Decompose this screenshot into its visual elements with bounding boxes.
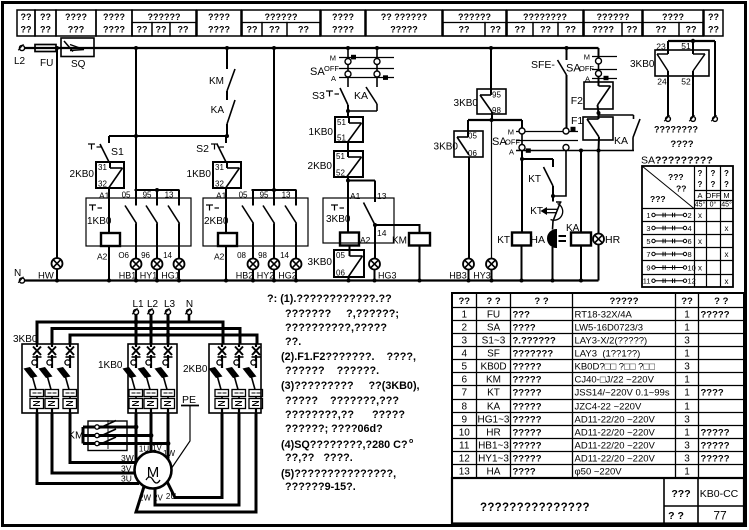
svg-text:5: 5 xyxy=(461,362,467,373)
relay box 3KB0 xyxy=(323,198,394,243)
svg-text:1: 1 xyxy=(684,323,690,334)
svg-text:????: ???? xyxy=(701,388,724,399)
svg-text:HB2: HB2 xyxy=(236,271,254,281)
svg-text:HA: HA xyxy=(530,234,545,246)
svg-text:??: ?? xyxy=(565,25,576,35)
pushbutton S2 xyxy=(196,136,226,162)
svg-text:95: 95 xyxy=(492,91,501,100)
svg-text:????: ???? xyxy=(65,12,87,22)
svg-text:??: ?? xyxy=(40,12,51,22)
svg-text:????: ???? xyxy=(332,12,354,22)
wire phase L3 distribution xyxy=(70,315,257,345)
svg-text:1: 1 xyxy=(684,467,690,478)
contact 2KB0 05-08 xyxy=(237,190,253,260)
svg-text:10: 10 xyxy=(688,263,696,272)
coil KA xyxy=(566,149,591,281)
wire top feeder L2 bus xyxy=(22,46,599,50)
svg-text:JSS14/~220V 0.1~99s: JSS14/~220V 0.1~99s xyxy=(575,388,670,399)
lamp HY1 xyxy=(140,258,163,281)
svg-text:???: ??? xyxy=(671,488,690,500)
pushbutton S3 xyxy=(312,88,348,105)
svg-text:??: ?? xyxy=(247,25,258,35)
svg-text:??: ?? xyxy=(40,25,51,35)
svg-text:05: 05 xyxy=(336,251,345,260)
terminal L1 power xyxy=(132,299,144,315)
aux NC contact 3KB0 05-06 xyxy=(308,246,364,281)
contact KA bypass (NO) xyxy=(599,115,641,151)
svg-text:2KB0: 2KB0 xyxy=(183,364,208,375)
svg-text:1: 1 xyxy=(684,388,690,399)
svg-text:12: 12 xyxy=(459,454,471,465)
svg-text:??????????,?????: ??????????,????? xyxy=(285,322,387,334)
svg-text:KT: KT xyxy=(487,388,500,399)
svg-text:??????? ?,??????;: ??????? ?,??????; xyxy=(285,308,399,320)
svg-text:1U: 1U xyxy=(139,445,149,454)
svg-text:??????; ????06d?: ??????; ????06d? xyxy=(285,423,383,435)
svg-text:x: x xyxy=(725,277,729,286)
svg-text:SQ: SQ xyxy=(71,59,86,70)
svg-text:?????: ????? xyxy=(513,388,542,399)
svg-text:?????: ????? xyxy=(513,362,542,373)
svg-text:??: ?? xyxy=(656,25,667,35)
svg-text:?: (1).????????????.??: ?: (1).????????????.?? xyxy=(267,293,392,305)
table bill of materials xyxy=(452,293,744,478)
svg-text:1: 1 xyxy=(684,428,690,439)
svg-text:9: 9 xyxy=(646,263,650,272)
wire contact header xyxy=(135,188,180,192)
svg-text:95: 95 xyxy=(260,191,269,200)
svg-text:8: 8 xyxy=(461,402,467,413)
svg-text:51: 51 xyxy=(337,118,346,127)
svg-text:S3: S3 xyxy=(312,90,325,102)
svg-text:???????????????: ??????????????? xyxy=(480,502,590,514)
svg-text:A: A xyxy=(697,191,702,200)
svg-text:KA: KA xyxy=(614,135,628,147)
svg-text:KA: KA xyxy=(354,90,368,102)
contact KM (NO) xyxy=(209,48,235,91)
svg-text:OFF: OFF xyxy=(324,64,339,73)
label motor terminals top xyxy=(139,444,176,459)
aux NC contact 2KB0 51-52 xyxy=(308,151,363,178)
svg-text:OFF: OFF xyxy=(505,138,520,147)
svg-text:8: 8 xyxy=(688,250,692,259)
contact KA (NO) xyxy=(211,91,235,136)
fuse FU xyxy=(35,45,56,70)
lamp HY3 xyxy=(473,120,497,281)
svg-text:7: 7 xyxy=(646,250,650,259)
svg-text:L1: L1 xyxy=(132,299,144,310)
wire contact header xyxy=(252,188,297,192)
svg-text:??: ?? xyxy=(708,25,719,35)
svg-text:KT: KT xyxy=(528,174,541,185)
svg-text:F2: F2 xyxy=(571,95,583,107)
svg-text:????: ???? xyxy=(332,25,354,35)
svg-text:06: 06 xyxy=(468,149,477,158)
label SA table title xyxy=(641,155,713,167)
wire dropper to group2 contacts xyxy=(273,48,275,190)
svg-text:3KB0: 3KB0 xyxy=(434,142,459,153)
aux NC contact 3KB0 05-06 right xyxy=(434,131,483,258)
svg-text:KB0D?□□ ?□□ ?□□: KB0D?□□ ?□□ ?□□ xyxy=(575,362,656,373)
svg-text:3: 3 xyxy=(684,415,690,426)
relay box 2KB0 xyxy=(203,188,308,246)
svg-text:??: ?? xyxy=(21,25,32,35)
svg-text:LAY3-X/2(?????): LAY3-X/2(?????) xyxy=(575,336,648,347)
svg-text:1: 1 xyxy=(684,375,690,386)
svg-text:14: 14 xyxy=(377,228,387,238)
svg-text:KT: KT xyxy=(530,206,543,217)
svg-text:SA: SA xyxy=(487,323,501,334)
svg-text:1V: 1V xyxy=(152,444,162,453)
label motor terminals bottom xyxy=(139,492,176,503)
title header row xyxy=(17,10,723,36)
terminal L3 power xyxy=(164,299,176,315)
wire to A1 and 13 xyxy=(346,177,387,202)
svg-text:??: ?? xyxy=(681,296,693,307)
svg-text:????: ???? xyxy=(662,12,684,22)
svg-text:KM: KM xyxy=(486,375,501,386)
svg-text:?: ? xyxy=(698,169,703,178)
svg-text:M: M xyxy=(330,54,336,63)
svg-text:1KB0: 1KB0 xyxy=(309,127,334,138)
svg-text:3KB0: 3KB0 xyxy=(454,98,479,109)
lamp HR xyxy=(593,151,621,281)
svg-text:HY1~3: HY1~3 xyxy=(478,454,509,465)
svg-text:45°: 45° xyxy=(695,201,706,209)
svg-text:?????: ????? xyxy=(513,428,542,439)
label PE xyxy=(172,394,199,468)
svg-text:AD11-22/20 ~220V: AD11-22/20 ~220V xyxy=(575,428,656,439)
thermal relay F2 xyxy=(571,82,613,115)
svg-text:L3: L3 xyxy=(164,299,176,310)
svg-text:??????9-15?.: ??????9-15?. xyxy=(285,481,356,493)
svg-text:??: ?? xyxy=(458,296,470,307)
svg-text:32: 32 xyxy=(98,180,107,189)
svg-text:KM: KM xyxy=(392,236,407,247)
svg-text:?: ? xyxy=(711,180,716,189)
contact 1KB0 13-14 xyxy=(163,190,179,260)
svg-text:32: 32 xyxy=(215,180,224,189)
cam switch SA upper xyxy=(310,48,394,87)
svg-text:24: 24 xyxy=(657,77,667,87)
svg-text:KB0D: KB0D xyxy=(480,362,506,373)
svg-text:M: M xyxy=(584,53,590,62)
svg-text:x: x xyxy=(725,224,729,233)
svg-text:LAY3 (1??1??): LAY3 (1??1??) xyxy=(575,349,641,360)
svg-text:????: ???? xyxy=(513,467,536,478)
svg-text:3KB0: 3KB0 xyxy=(13,334,38,345)
svg-text:FU: FU xyxy=(487,310,500,321)
svg-text:2KB0: 2KB0 xyxy=(308,161,333,172)
svg-text:3: 3 xyxy=(461,336,467,347)
contact KT (NO) xyxy=(528,159,555,198)
lamp HY2 xyxy=(257,258,280,281)
lamp HB2 xyxy=(236,258,259,281)
svg-text:???????: ??????? xyxy=(513,349,554,360)
svg-text:????: ???? xyxy=(103,25,125,35)
svg-text:95: 95 xyxy=(143,191,152,200)
svg-text:KA: KA xyxy=(566,223,580,234)
coil KM xyxy=(392,233,430,281)
svg-text:HY1: HY1 xyxy=(140,271,158,281)
circuit breaker 1KB0 power xyxy=(98,344,177,413)
svg-text:??: ?? xyxy=(515,25,526,35)
svg-text:M: M xyxy=(147,464,160,481)
wire branch bus y136 xyxy=(109,134,229,138)
svg-text:??: ?? xyxy=(490,25,501,35)
aux NC contact 2KB0 31-32 xyxy=(70,162,124,189)
svg-text:23: 23 xyxy=(656,42,666,52)
svg-text:05: 05 xyxy=(122,191,131,200)
svg-text:??,?? ????.: ??,?? ????. xyxy=(285,452,353,464)
svg-text:9: 9 xyxy=(461,415,467,426)
svg-text:A1: A1 xyxy=(350,191,361,201)
svg-text:??: ?? xyxy=(21,12,32,22)
svg-text:(5)???????????????,: (5)???????????????, xyxy=(281,468,396,480)
wire neutral N bus xyxy=(22,279,599,283)
svg-text:x: x xyxy=(698,237,702,246)
svg-text:(3)????????? ??(3KB0),: (3)????????? ??(3KB0), xyxy=(281,380,420,392)
svg-text:M: M xyxy=(508,128,514,137)
svg-text:????: ???? xyxy=(103,12,125,22)
svg-text:SF: SF xyxy=(487,349,500,360)
svg-text:51: 51 xyxy=(681,41,691,51)
svg-text:13: 13 xyxy=(165,191,174,200)
svg-text:52: 52 xyxy=(336,169,345,178)
svg-text:?????: ????? xyxy=(701,428,730,439)
cam switch SA upper-right xyxy=(566,48,617,84)
svg-text:45°: 45° xyxy=(721,201,732,209)
svg-text:51: 51 xyxy=(336,152,345,161)
svg-text:OFF: OFF xyxy=(706,191,721,200)
wire phase L2 distribution xyxy=(52,315,240,345)
svg-text:? ?: ? ? xyxy=(714,296,728,307)
svg-text:31: 31 xyxy=(98,163,107,172)
svg-text:98: 98 xyxy=(492,106,501,115)
svg-text:3: 3 xyxy=(684,336,690,347)
pushbutton S1 xyxy=(88,136,124,162)
svg-text:????? ???????,???: ????? ???????,??? xyxy=(285,395,399,407)
svg-text:?????: ????? xyxy=(701,310,730,321)
limit switch SQ xyxy=(61,38,94,70)
svg-text:M: M xyxy=(723,191,729,200)
svg-text:6: 6 xyxy=(688,237,692,246)
svg-text:??????: ?????? xyxy=(458,12,491,22)
svg-text:96: 96 xyxy=(141,251,150,260)
svg-text:KA: KA xyxy=(211,105,225,116)
svg-text:KM: KM xyxy=(209,76,224,87)
svg-text:?????: ????? xyxy=(513,402,542,413)
svg-text:??.: ??. xyxy=(285,336,301,348)
svg-text:S1~3: S1~3 xyxy=(482,336,506,347)
svg-text:OFF: OFF xyxy=(579,64,594,73)
svg-text:A: A xyxy=(331,74,336,83)
lamp HW xyxy=(38,258,63,282)
svg-text:4: 4 xyxy=(688,224,692,233)
svg-text:JZC4-22 ~220V: JZC4-22 ~220V xyxy=(575,402,642,413)
svg-text:2V: 2V xyxy=(153,494,163,503)
svg-text:1KB0: 1KB0 xyxy=(98,360,123,371)
svg-text:HG3: HG3 xyxy=(378,271,397,281)
lamp HG3 xyxy=(369,225,397,281)
svg-text:(4)SQ????????,?280 C?: (4)SQ????????,?280 C? xyxy=(281,439,408,451)
svg-text:S1: S1 xyxy=(111,146,124,158)
svg-text:1KB0: 1KB0 xyxy=(187,169,212,180)
svg-text:1: 1 xyxy=(461,310,467,321)
svg-text:???: ??? xyxy=(650,194,666,204)
contact 2KB0 13-14 xyxy=(280,190,296,260)
svg-text:??: ?? xyxy=(686,25,697,35)
relay box 1KB0 xyxy=(86,188,191,246)
svg-text:3KB0: 3KB0 xyxy=(308,257,333,268)
svg-text:12: 12 xyxy=(688,277,696,286)
svg-text:14: 14 xyxy=(280,251,289,260)
svg-text:05: 05 xyxy=(239,191,248,200)
table SA positions xyxy=(642,166,733,287)
wire 14 to KM coil xyxy=(375,225,420,233)
svg-text:????: ???? xyxy=(513,323,536,334)
horn HA xyxy=(530,230,566,281)
svg-text:????: ???? xyxy=(592,25,614,35)
svg-text:??????: ?????? xyxy=(148,12,181,22)
svg-text:98: 98 xyxy=(258,251,267,260)
svg-text:HB1~3: HB1~3 xyxy=(478,441,509,452)
title block xyxy=(452,478,744,524)
svg-text:2U: 2U xyxy=(166,492,176,501)
svg-text:A2: A2 xyxy=(214,252,225,262)
svg-text:13: 13 xyxy=(459,467,471,478)
svg-text:????: ???? xyxy=(670,139,693,150)
svg-text:HY2: HY2 xyxy=(257,271,275,281)
svg-text:3: 3 xyxy=(684,441,690,452)
svg-text:???: ??? xyxy=(68,25,85,35)
label wiring note xyxy=(654,125,698,151)
aux NC contact 1KB0 31-32 xyxy=(187,162,241,189)
svg-text:HA: HA xyxy=(487,467,501,478)
svg-text:77: 77 xyxy=(713,509,727,523)
svg-text:1: 1 xyxy=(646,211,650,220)
svg-text:2: 2 xyxy=(688,211,692,220)
svg-text:3: 3 xyxy=(684,362,690,373)
svg-text:HR: HR xyxy=(605,234,621,246)
wire HW branch xyxy=(56,48,58,258)
svg-text:1: 1 xyxy=(684,349,690,360)
contact 3KB0 13-14 xyxy=(364,203,387,239)
svg-text:3: 3 xyxy=(646,224,650,233)
cam switch SA lower xyxy=(492,127,634,157)
svg-text:A: A xyxy=(509,148,514,157)
svg-text:??????: ?????? xyxy=(597,12,630,22)
svg-text:?: ? xyxy=(711,169,716,178)
aux contacts 3KB0 23-51 box xyxy=(630,39,715,87)
svg-text:2W: 2W xyxy=(139,494,151,503)
svg-text:?? ??????: ?? ?????? xyxy=(381,12,427,22)
svg-text:7: 7 xyxy=(461,388,467,399)
svg-text:??????: ?????? xyxy=(265,12,298,22)
svg-text:0°: 0° xyxy=(710,201,717,209)
svg-text:HB3: HB3 xyxy=(449,271,467,281)
coil 1KB0 xyxy=(97,198,120,281)
svg-text:AD11-22/20 ~220V: AD11-22/20 ~220V xyxy=(575,415,656,426)
svg-text:??: ?? xyxy=(708,12,719,22)
svg-text:??: ?? xyxy=(298,25,309,35)
svg-text:2KB0: 2KB0 xyxy=(70,169,95,180)
contact KA parallel (NO) xyxy=(354,87,377,111)
svg-text:?????: ????? xyxy=(513,375,542,386)
contact 1KB0 05-O6 xyxy=(118,190,136,260)
svg-text:????: ???? xyxy=(208,12,230,22)
svg-text:(2).F1.F2???????. ????,: (2).F1.F2???????. ????, xyxy=(281,351,416,363)
svg-text:???: ??? xyxy=(513,310,531,321)
svg-text:13: 13 xyxy=(282,191,291,200)
circuit breaker 3KB0 power xyxy=(13,334,78,413)
svg-text:3W: 3W xyxy=(121,453,134,463)
svg-text:KA: KA xyxy=(487,402,501,413)
svg-text:KB0-CC: KB0-CC xyxy=(700,488,739,500)
wire SA-A branch KT xyxy=(520,134,553,233)
svg-text:? ?: ? ? xyxy=(486,296,500,307)
wire 1KB0 outputs to motor xyxy=(136,413,168,462)
wire terminals of SA illustration xyxy=(664,41,717,121)
svg-text:HB1: HB1 xyxy=(119,271,137,281)
terminal N power xyxy=(185,299,193,322)
svg-text:3KB0: 3KB0 xyxy=(630,59,655,70)
svg-text:3V: 3V xyxy=(121,464,132,474)
svg-text:2: 2 xyxy=(461,323,467,334)
svg-text:06: 06 xyxy=(336,269,345,278)
lamp HB3 xyxy=(449,258,474,281)
svg-text:N: N xyxy=(186,299,193,310)
svg-text:?????: ????? xyxy=(609,296,638,307)
svg-text:x: x xyxy=(698,264,702,273)
svg-text:o: o xyxy=(409,438,413,445)
lamp HG2 xyxy=(278,258,301,281)
wire 3KB0 outputs 3W 3V 3U xyxy=(37,413,139,484)
svg-text:??: ?? xyxy=(627,25,638,35)
contact KT delayed xyxy=(530,196,563,230)
coil 3KB0 xyxy=(340,198,371,246)
svg-text:52: 52 xyxy=(681,77,691,87)
svg-text:CJ40-□J/22 ~220V: CJ40-□J/22 ~220V xyxy=(575,375,655,386)
terminal L2 power xyxy=(147,299,159,315)
wire motor returns 2U 2V 2W to 2KB0 xyxy=(136,413,256,512)
svg-text:?: ? xyxy=(698,180,703,189)
svg-text:RT18-32X/4A: RT18-32X/4A xyxy=(575,310,633,321)
svg-text:????????,?? ?????: ????????,?? ????? xyxy=(285,409,405,421)
terminal L2 xyxy=(14,44,26,67)
svg-text:?????: ????? xyxy=(701,454,730,465)
svg-text:??: ?? xyxy=(269,25,280,35)
svg-text:x: x xyxy=(725,250,729,259)
svg-text:A2: A2 xyxy=(97,252,108,262)
circuit breaker 2KB0 power xyxy=(183,344,263,413)
svg-text:????????: ???????? xyxy=(654,125,698,135)
svg-text:AD11-22/20 ~220V: AD11-22/20 ~220V xyxy=(575,441,656,452)
svg-text:HG1~3: HG1~3 xyxy=(478,415,510,426)
svg-text:S2: S2 xyxy=(196,143,209,155)
svg-text:??: ?? xyxy=(156,25,167,35)
terminal N xyxy=(14,268,25,283)
wire KT link to SA contact xyxy=(553,151,566,197)
wire phase L1 distribution xyxy=(37,315,223,345)
contactor KM power xyxy=(68,420,170,451)
svg-text:HG1: HG1 xyxy=(161,271,180,281)
svg-text:??: ?? xyxy=(540,25,551,35)
svg-text:L2: L2 xyxy=(14,56,26,67)
svg-text:?: ? xyxy=(724,169,729,178)
contact 2KB0 95-98 xyxy=(258,190,274,260)
svg-text:SA?????????: SA????????? xyxy=(641,155,713,167)
